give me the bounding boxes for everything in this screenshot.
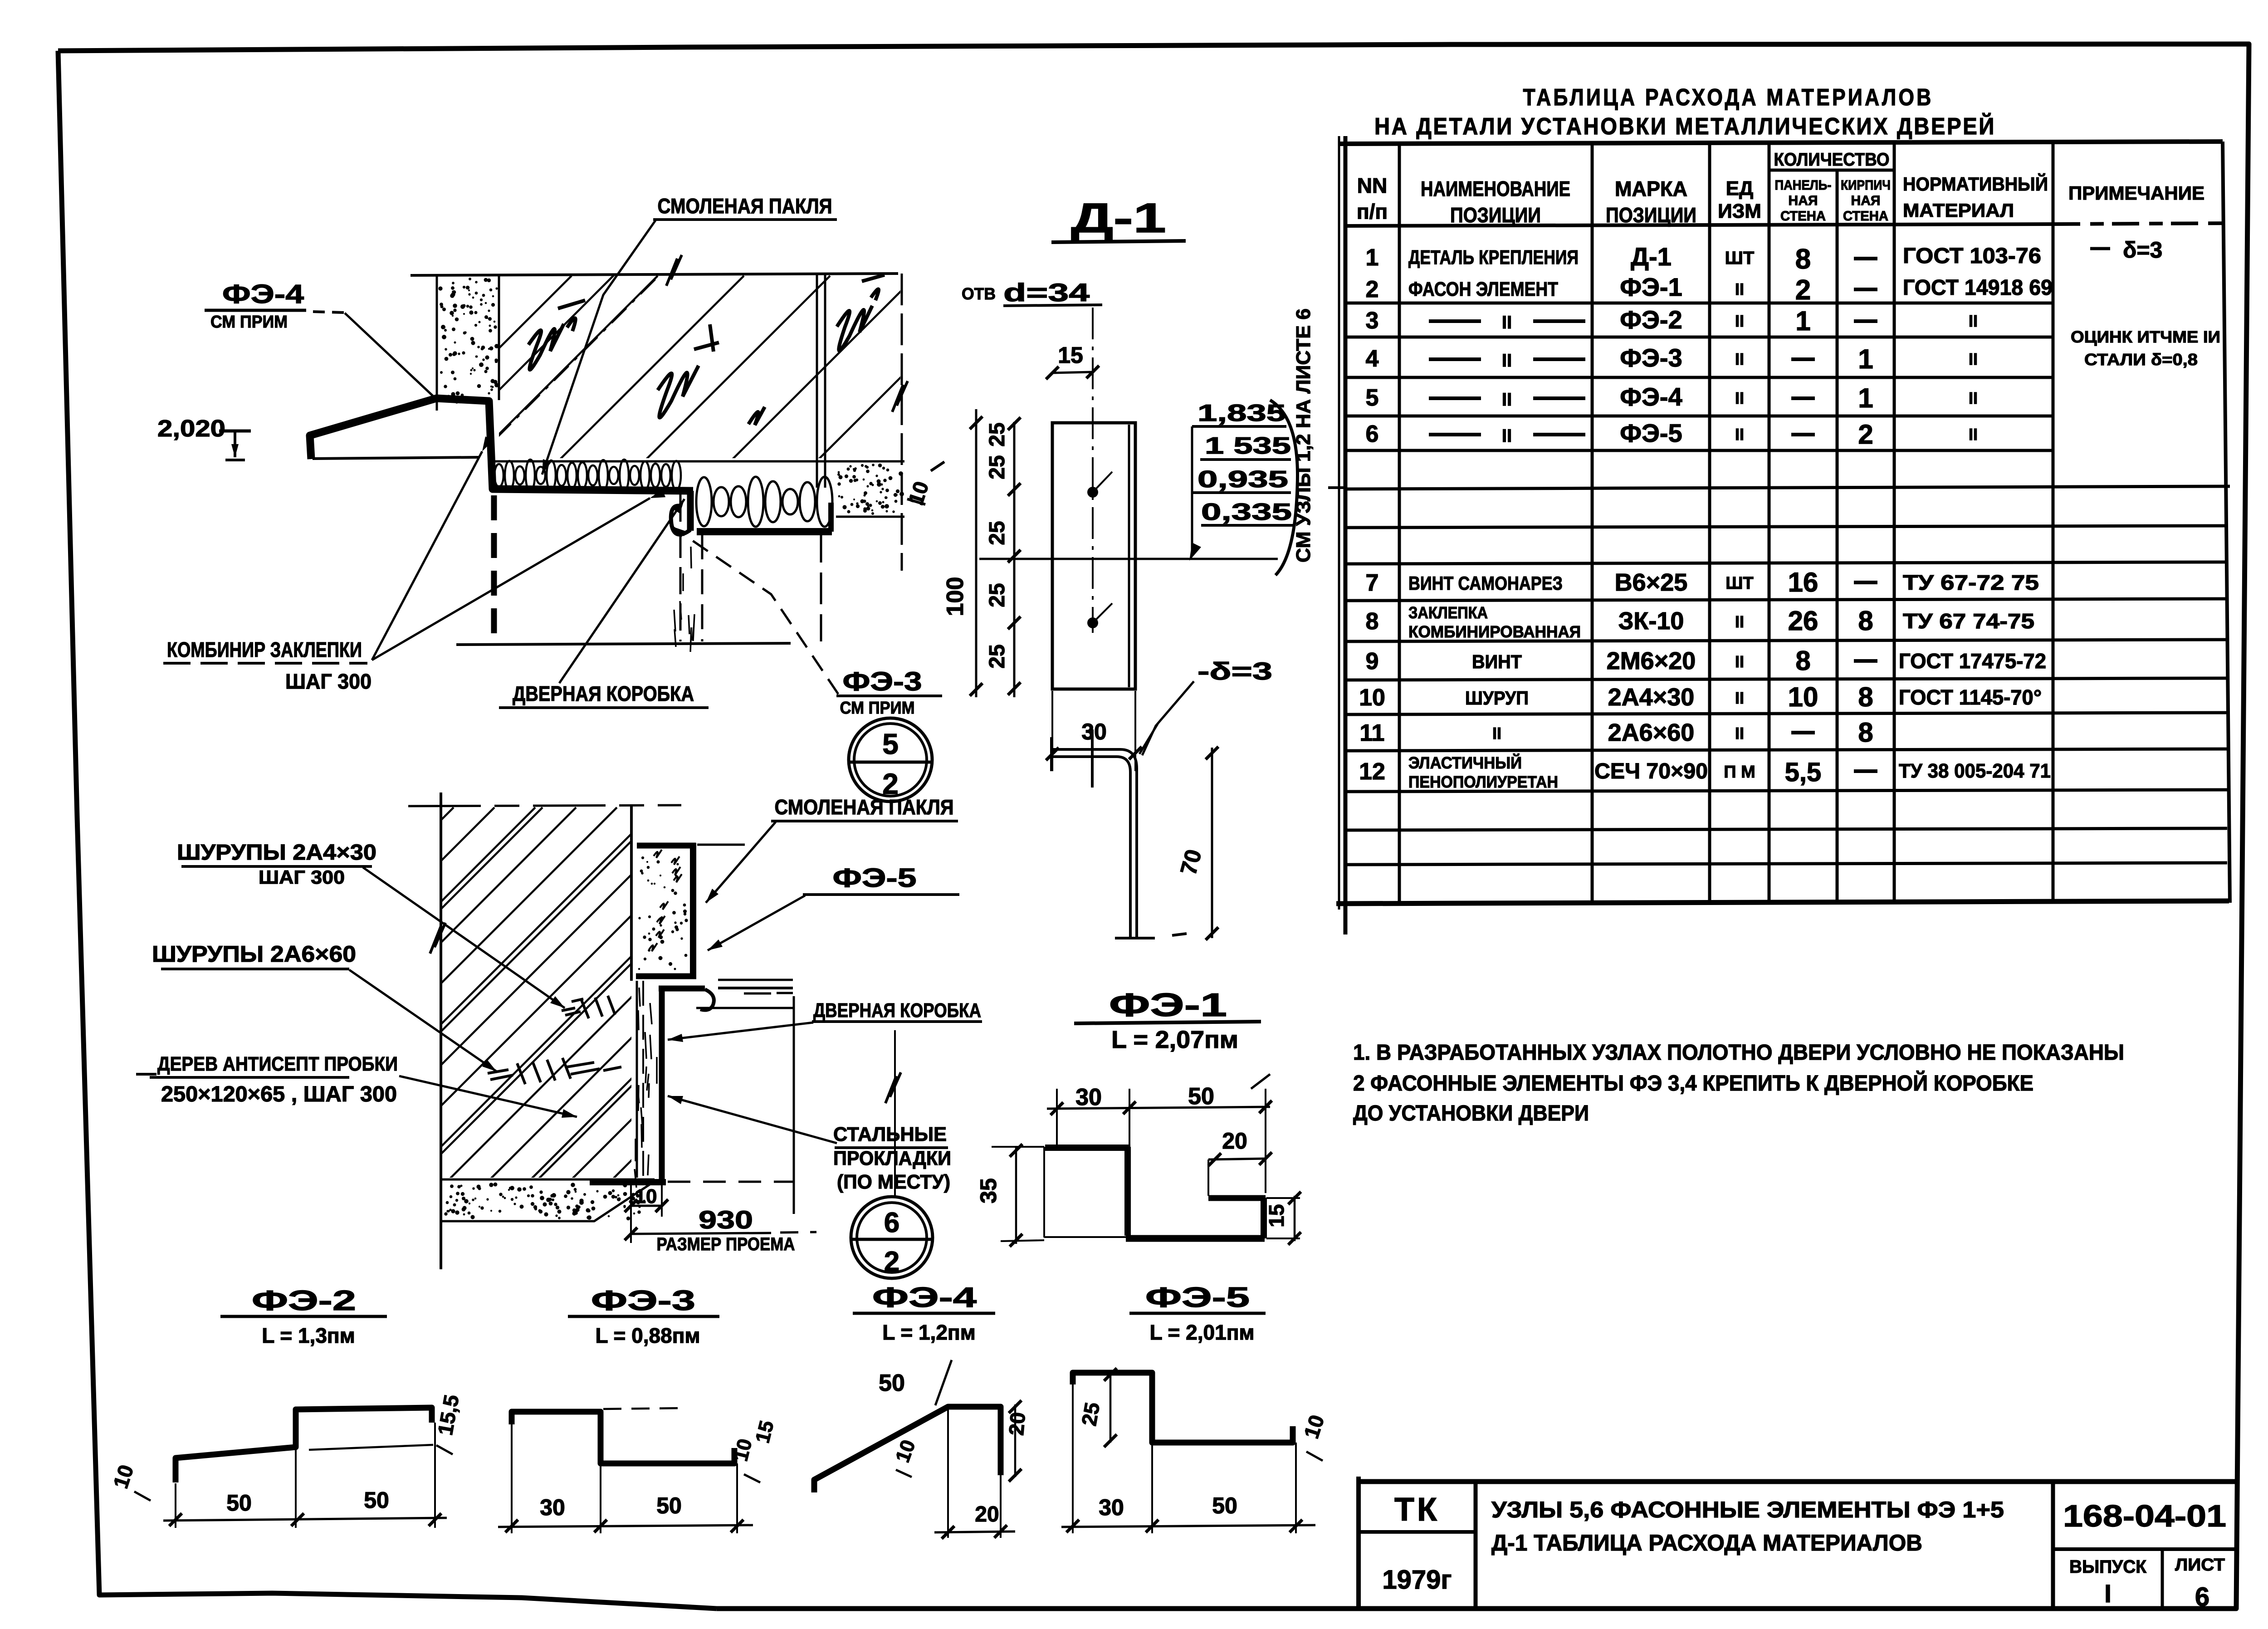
svg-text:ГОСТ 1145-70°: ГОСТ 1145-70° <box>1899 685 2042 709</box>
FE-2 profile <box>176 1408 433 1482</box>
label FE-3 with sm prim <box>836 667 942 718</box>
title block texts <box>1382 1492 2226 1612</box>
bottom flange thick <box>697 528 832 535</box>
svg-text:II: II <box>1735 652 1744 671</box>
svg-text:ДЕРЕВ АНТИСЕПТ ПРОБКИ: ДЕРЕВ АНТИСЕПТ ПРОБКИ <box>157 1053 398 1075</box>
svg-text:ДЕТАЛЬ КРЕПЛЕНИЯ: ДЕТАЛЬ КРЕПЛЕНИЯ <box>1408 246 1579 269</box>
svg-text:СТЕНА: СТЕНА <box>1843 209 1888 224</box>
svg-text:168-04-01: 168-04-01 <box>2063 1499 2226 1533</box>
svg-text:ГОСТ 14918 69: ГОСТ 14918 69 <box>1903 276 2053 300</box>
FE-5 block texture <box>649 850 682 951</box>
svg-text:ФЭ-4: ФЭ-4 <box>872 1282 977 1313</box>
svg-text:2 ФАСОННЫЕ ЭЛЕМЕНТЫ ФЭ 3,4 КРЕ: 2 ФАСОННЫЕ ЭЛЕМЕНТЫ ФЭ 3,4 КРЕПИТЬ К ДВЕ… <box>1353 1071 2033 1096</box>
svg-text:50: 50 <box>1212 1493 1237 1518</box>
svg-text:ПРОКЛАДКИ: ПРОКЛАДКИ <box>833 1147 951 1169</box>
svg-text:1: 1 <box>1858 383 1873 413</box>
svg-text:8: 8 <box>1858 606 1873 636</box>
uzel 5 wall inner double lines <box>817 274 825 488</box>
FE-4 leader <box>345 313 435 398</box>
svg-text:СТЕНА: СТЕНА <box>1780 209 1826 224</box>
svg-text:25: 25 <box>1077 1401 1104 1428</box>
svg-text:ОТВ: ОТВ <box>962 284 996 303</box>
label dvernaya korobka (uzel5) <box>499 682 709 708</box>
svg-text:ФЭ-1: ФЭ-1 <box>1109 987 1227 1023</box>
svg-text:2: 2 <box>884 1246 899 1277</box>
svg-text:Д-1: Д-1 <box>1631 242 1672 271</box>
svg-text:II: II <box>1502 313 1512 333</box>
svg-text:II: II <box>1735 312 1744 330</box>
svg-text:1: 1 <box>1366 245 1379 271</box>
dim 30 below plate <box>1046 691 1142 771</box>
uzel 5 top wall line <box>411 274 898 275</box>
svg-text:ЭЛАСТИЧНЫЙ: ЭЛАСТИЧНЫЙ <box>1408 753 1522 772</box>
tow row1 loops <box>494 460 681 491</box>
svg-text:10: 10 <box>635 1185 657 1208</box>
svg-text:10: 10 <box>1788 682 1818 712</box>
FE-5 title <box>1129 1282 1266 1344</box>
svg-text:ПОЗИЦИИ: ПОЗИЦИИ <box>1450 203 1541 227</box>
svg-text:0,935: 0,935 <box>1198 466 1288 493</box>
svg-text:26: 26 <box>1788 606 1818 636</box>
label derev antisept <box>136 1053 398 1106</box>
svg-text:ШТ: ШТ <box>1725 248 1755 268</box>
svg-text:-δ=3: -δ=3 <box>1198 658 1272 685</box>
svg-text:КОМБИНИР ЗАКЛЕПКИ: КОМБИНИР ЗАКЛЕПКИ <box>167 638 362 661</box>
svg-text:II: II <box>1502 390 1512 410</box>
svg-text:8: 8 <box>1858 682 1873 712</box>
svg-text:20: 20 <box>975 1502 999 1526</box>
dim 15 <box>1046 342 1099 379</box>
svg-text:ФАСОН ЭЛЕМЕНТ: ФАСОН ЭЛЕМЕНТ <box>1408 278 1558 300</box>
svg-text:ФЭ-5: ФЭ-5 <box>833 863 917 893</box>
korobka leader <box>559 499 684 683</box>
svg-text:ФЭ-5: ФЭ-5 <box>1145 1282 1250 1313</box>
svg-text:50: 50 <box>1188 1083 1214 1110</box>
svg-text:ПЕНОПОЛИУРЕТАН: ПЕНОПОЛИУРЕТАН <box>1408 773 1558 791</box>
svg-text:ТАБЛИЦА РАСХОДА МАТЕРИАЛОВ: ТАБЛИЦА РАСХОДА МАТЕРИАЛОВ <box>1523 84 1934 111</box>
FE-4 title <box>853 1282 995 1344</box>
svg-text:II: II <box>1969 425 1978 444</box>
svg-text:δ=3: δ=3 <box>2123 237 2162 263</box>
svg-text:(ПО МЕСТУ): (ПО МЕСТУ) <box>837 1171 950 1193</box>
FE-1 dims top <box>1047 1074 1272 1193</box>
svg-text:930: 930 <box>699 1205 753 1234</box>
svg-text:ГОСТ 17475-72: ГОСТ 17475-72 <box>1899 649 2046 673</box>
svg-text:20: 20 <box>1222 1128 1247 1154</box>
svg-text:2: 2 <box>1858 419 1873 450</box>
FE-1 dim 15 <box>1265 1192 1301 1245</box>
svg-text:4: 4 <box>1366 346 1379 372</box>
svg-text:ПРИМЕЧАНИЕ: ПРИМЕЧАНИЕ <box>2068 182 2204 204</box>
FE-1 title <box>1074 987 1261 1053</box>
FE-5 dims <box>1061 1368 1329 1533</box>
svg-text:NN: NN <box>1357 174 1387 197</box>
svg-text:5: 5 <box>882 728 899 760</box>
label shurupy 2A4 <box>177 841 376 888</box>
plate holes <box>1087 472 1112 628</box>
svg-text:II: II <box>1735 724 1744 743</box>
svg-text:ДО УСТАНОВКИ ДВЕРИ: ДО УСТАНОВКИ ДВЕРИ <box>1353 1101 1589 1125</box>
svg-text:ФЭ-2: ФЭ-2 <box>252 1285 356 1316</box>
svg-text:ШТ: ШТ <box>1725 574 1753 593</box>
svg-text:50: 50 <box>364 1487 389 1513</box>
big bracket <box>1270 400 1298 575</box>
svg-text:П М: П М <box>1724 763 1755 782</box>
svg-text:II: II <box>1735 350 1744 368</box>
svg-text:ЗК-10: ЗК-10 <box>1618 607 1684 635</box>
uzel 5 frame grain <box>674 547 694 652</box>
svg-text:ШУРУПЫ 2А6×60: ШУРУПЫ 2А6×60 <box>152 941 356 967</box>
svg-text:Д-1 ТАБЛИЦА РАСХОДА МАТЕРИАЛОВ: Д-1 ТАБЛИЦА РАСХОДА МАТЕРИАЛОВ <box>1491 1530 1922 1556</box>
svg-text:100: 100 <box>942 577 968 616</box>
uzel 6 door frame profile <box>590 986 794 1214</box>
svg-text:СМОЛЕНАЯ ПАКЛЯ: СМОЛЕНАЯ ПАКЛЯ <box>658 194 832 218</box>
plate centerline <box>979 558 1278 560</box>
svg-text:МАРКА: МАРКА <box>1615 177 1687 201</box>
svg-text:СТАЛИ δ=0,8: СТАЛИ δ=0,8 <box>2084 350 2198 369</box>
svg-text:2: 2 <box>1795 274 1811 306</box>
svg-text:II: II <box>1735 280 1744 298</box>
hole centerline vertical <box>1092 308 1094 633</box>
FE-1 thin closing lines <box>1044 1147 1126 1238</box>
svg-text:8: 8 <box>1795 244 1811 275</box>
svg-text:L = 2,01пм: L = 2,01пм <box>1149 1321 1254 1344</box>
svg-text:25: 25 <box>985 583 1009 607</box>
svg-text:РАЗМЕР ПРОЕМА: РАЗМЕР ПРОЕМА <box>657 1234 795 1254</box>
svg-text:II: II <box>1735 389 1744 407</box>
svg-text:ШУРУП: ШУРУП <box>1465 687 1529 709</box>
FE-3 profile vertical with hem <box>687 491 694 531</box>
FE-5 profile <box>1073 1373 1293 1443</box>
elevation marks <box>1189 400 1294 561</box>
svg-text:ДВЕРНАЯ КОРОБКА: ДВЕРНАЯ КОРОБКА <box>513 682 694 705</box>
uzel 6 floor stipple <box>441 1179 655 1221</box>
tow row2 loops <box>696 477 832 527</box>
svg-text:II: II <box>1502 351 1512 371</box>
uzel 5 break mark top <box>666 255 682 286</box>
svg-text:II: II <box>1735 612 1744 631</box>
svg-text:ТУ 67 74-75: ТУ 67 74-75 <box>1903 609 2034 633</box>
svg-text:ТУ 38 005-204 71: ТУ 38 005-204 71 <box>1899 760 2051 782</box>
dim line 25x4 <box>985 417 1021 697</box>
label dvernaya korobka (uzel6) <box>812 999 982 1022</box>
svg-text:2А6×60: 2А6×60 <box>1608 719 1695 746</box>
otv d=34 label <box>962 278 1102 307</box>
svg-text:ИЗМ: ИЗМ <box>1718 200 1761 222</box>
svg-text:ГОСТ 103-76: ГОСТ 103-76 <box>1903 244 2041 268</box>
svg-text:5,5: 5,5 <box>1785 758 1822 787</box>
svg-text:II: II <box>1969 389 1978 407</box>
svg-text:8: 8 <box>1795 646 1810 676</box>
svg-text:ФЭ-4: ФЭ-4 <box>222 279 304 309</box>
D-1 bent angle piece <box>1050 729 1187 938</box>
svg-text:d=34: d=34 <box>1003 278 1090 307</box>
svg-text:6: 6 <box>1366 421 1379 447</box>
label FE-4 <box>205 279 345 332</box>
svg-text:9: 9 <box>1366 648 1379 675</box>
dim 70 <box>1175 747 1218 940</box>
svg-text:ВИНТ САМОНАРЕЗ: ВИНТ САМОНАРЕЗ <box>1408 572 1563 594</box>
uzel 5 soffit line <box>456 643 791 645</box>
svg-text:НОРМАТИВНЫЙ: НОРМАТИВНЫЙ <box>1903 173 2048 195</box>
svg-text:25: 25 <box>985 455 1009 479</box>
svg-text:УЗЛЫ 5,6 ФАСОННЫЕ ЭЛЕМЕНТЫ ФЭ: УЗЛЫ 5,6 ФАСОННЫЕ ЭЛЕМЕНТЫ ФЭ 1+5 <box>1491 1497 2004 1522</box>
svg-text:ФЭ-3: ФЭ-3 <box>1620 343 1682 372</box>
svg-text:5: 5 <box>1366 385 1379 411</box>
uzel 6 left wall line <box>440 792 442 1269</box>
circle mark 5/2 <box>849 718 932 802</box>
svg-text:II: II <box>1735 425 1744 444</box>
table rows text <box>1359 237 2220 791</box>
svg-text:ТК: ТК <box>1394 1492 1440 1528</box>
svg-text:В6×25: В6×25 <box>1615 569 1688 596</box>
svg-text:L = 1,2пм: L = 1,2пм <box>882 1321 975 1344</box>
svg-text:50: 50 <box>226 1490 252 1516</box>
svg-text:L = 1,3пм: L = 1,3пм <box>262 1324 355 1347</box>
svg-text:ФЭ-2: ФЭ-2 <box>1620 305 1682 334</box>
table grid <box>1328 136 2230 934</box>
svg-text:7: 7 <box>1366 570 1379 596</box>
uzel 5 concrete panel stipple <box>437 274 499 411</box>
FE-4 flashing profile thick <box>310 398 693 491</box>
D-1 plate <box>1052 423 1135 689</box>
uzel 6 break mark <box>430 923 445 954</box>
uzel 5 dashed wall edge below <box>491 495 497 639</box>
svg-text:Д-1: Д-1 <box>1071 195 1166 241</box>
svg-text:L = 0,88пм: L = 0,88пм <box>595 1324 700 1347</box>
FE-1 profile <box>1045 1145 1129 1151</box>
svg-text:ШАГ 300: ШАГ 300 <box>285 670 371 693</box>
zaklepki leaders <box>372 451 482 660</box>
svg-text:12: 12 <box>1359 758 1385 785</box>
uzel 6 plug marks upper <box>562 996 615 1018</box>
uzel 5 hatch squiggles <box>528 275 885 425</box>
FE-4 profile <box>814 1407 1001 1492</box>
svg-text:1,835: 1,835 <box>1198 400 1286 426</box>
svg-text:МАТЕРИАЛ: МАТЕРИАЛ <box>1903 200 2014 221</box>
uzel 5 break mark right <box>892 381 908 412</box>
svg-text:ФЭ-5: ФЭ-5 <box>1620 419 1682 447</box>
FE-3 title <box>568 1285 719 1347</box>
uzel 6 floor dashed line right <box>668 1181 794 1183</box>
svg-text:ШАГ 300: ШАГ 300 <box>259 866 345 888</box>
svg-text:6: 6 <box>884 1207 899 1238</box>
svg-text:НАЯ: НАЯ <box>1851 193 1881 208</box>
D-1 title <box>1051 195 1186 242</box>
svg-text:СТАЛЬНЫЕ: СТАЛЬНЫЕ <box>833 1123 947 1145</box>
svg-text:L = 2,07пм: L = 2,07пм <box>1111 1026 1238 1053</box>
svg-text:I: I <box>2104 1579 2112 1608</box>
svg-text:25: 25 <box>985 521 1009 545</box>
table header texts <box>1357 150 2204 227</box>
uzel 6 top dashed line <box>408 805 681 806</box>
svg-text:30: 30 <box>1099 1495 1124 1520</box>
uzel 6 wall lines below <box>637 981 643 1178</box>
uzel5 dim 10 <box>904 462 944 508</box>
svg-text:ПАНЕЛЬ-: ПАНЕЛЬ- <box>1775 178 1832 193</box>
svg-text:11: 11 <box>1360 720 1385 746</box>
paklya leader <box>542 220 655 475</box>
FE-2 title <box>220 1285 387 1347</box>
svg-text:30: 30 <box>540 1495 565 1520</box>
svg-text:25: 25 <box>985 644 1009 668</box>
svg-text:2: 2 <box>1366 276 1379 303</box>
svg-text:50: 50 <box>656 1493 682 1518</box>
svg-text:30: 30 <box>1075 1084 1102 1110</box>
uzel 6 right extension line <box>885 1030 901 1196</box>
svg-text:8: 8 <box>1858 717 1873 748</box>
dim line 100 <box>942 409 982 697</box>
uzel 6 dim 930 <box>625 1205 816 1254</box>
label kombinir zaklepki <box>163 638 371 693</box>
svg-text:1: 1 <box>1795 306 1810 336</box>
svg-text:1: 1 <box>1858 344 1873 374</box>
svg-text:НАЯ: НАЯ <box>1789 193 1818 208</box>
svg-text:ФЭ-3: ФЭ-3 <box>591 1285 695 1316</box>
FE-3 leader dashed <box>671 526 838 694</box>
uzel 6 threshold lines <box>718 980 793 993</box>
svg-text:1. В РАЗРАБОТАННЫХ УЗЛАХ ПОЛОТ: 1. В РАЗРАБОТАННЫХ УЗЛАХ ПОЛОТНО ДВЕРИ У… <box>1353 1041 2124 1065</box>
svg-text:1979г: 1979г <box>1382 1565 1452 1595</box>
svg-text:25: 25 <box>985 422 1009 446</box>
svg-text:ТУ 67-72 75: ТУ 67-72 75 <box>1903 571 2039 594</box>
svg-text:НАИМЕНОВАНИЕ: НАИМЕНОВАНИЕ <box>1421 177 1570 201</box>
label shurupy 2A6 <box>152 941 356 969</box>
svg-text:10: 10 <box>1359 685 1385 711</box>
uzel 5 right concrete block stipple <box>836 464 904 517</box>
svg-text:ПОЗИЦИИ: ПОЗИЦИИ <box>1606 203 1696 227</box>
FE-4 dims <box>879 1360 1030 1539</box>
label FE-5 (uzel6) <box>803 863 959 895</box>
door leaf top line <box>313 457 479 459</box>
FE-3 profile <box>512 1408 734 1463</box>
svg-text:35: 35 <box>976 1178 1001 1203</box>
svg-text:II: II <box>1492 724 1501 743</box>
svg-text:1 535: 1 535 <box>1205 433 1291 459</box>
svg-text:ЛИСТ: ЛИСТ <box>2175 1556 2225 1575</box>
svg-text:п/п: п/п <box>1357 200 1388 223</box>
FE-3 hem curl <box>671 506 690 534</box>
svg-text:СМ УЗЛЫ 1,2 НА ЛИСТЕ 6: СМ УЗЛЫ 1,2 НА ЛИСТЕ 6 <box>1292 308 1315 563</box>
tow band1 top line <box>493 460 904 463</box>
uzel 6 plug marks lower <box>488 1058 621 1084</box>
FE-1 dim 20 <box>1208 1128 1272 1196</box>
svg-text:3: 3 <box>1366 308 1379 334</box>
svg-text:II: II <box>1969 312 1978 330</box>
uzel 5 level mark 2,020 <box>157 416 251 460</box>
svg-text:0,335: 0,335 <box>1201 499 1292 525</box>
label -d=3 <box>1142 658 1272 755</box>
title block frame <box>1359 1477 2236 1609</box>
svg-text:ЕД: ЕД <box>1726 177 1754 200</box>
svg-text:ФЭ-4: ФЭ-4 <box>1620 382 1682 411</box>
svg-text:ФЭ-3: ФЭ-3 <box>843 667 922 696</box>
svg-text:II: II <box>1969 350 1978 368</box>
svg-text:15: 15 <box>1265 1204 1288 1227</box>
svg-text:6: 6 <box>2195 1582 2209 1612</box>
svg-text:ФЭ-1: ФЭ-1 <box>1620 273 1682 301</box>
uzel 5 wall right edge <box>901 274 903 571</box>
label smolyanaya paklya (uzel6) <box>771 795 958 821</box>
svg-text:СМОЛЕНАЯ ПАКЛЯ: СМОЛЕНАЯ ПАКЛЯ <box>775 795 954 819</box>
svg-text:СЕЧ 70×90: СЕЧ 70×90 <box>1594 759 1708 783</box>
svg-text:2М6×20: 2М6×20 <box>1607 647 1696 675</box>
svg-text:ДВЕРНАЯ КОРОБКА: ДВЕРНАЯ КОРОБКА <box>813 999 981 1022</box>
svg-text:СМ ПРИМ: СМ ПРИМ <box>840 699 915 718</box>
FE-5 block in uzel6: profile thick <box>636 843 745 976</box>
svg-text:КОМБИНИРОВАННАЯ: КОМБИНИРОВАННАЯ <box>1408 622 1581 641</box>
svg-text:50: 50 <box>879 1370 905 1396</box>
svg-text:КИРПИЧ: КИРПИЧ <box>1841 178 1891 193</box>
svg-text:II: II <box>1735 689 1744 707</box>
FE-3 dims <box>498 1419 778 1533</box>
svg-text:15: 15 <box>1058 342 1083 368</box>
svg-text:НА ДЕТАЛИ УСТАНОВКИ МЕТАЛЛИЧЕС: НА ДЕТАЛИ УСТАНОВКИ МЕТАЛЛИЧЕСКИХ ДВЕРЕЙ <box>1374 113 1996 140</box>
circle mark 6/2 <box>851 1197 933 1278</box>
leader to angle corner <box>1139 724 1158 754</box>
uzel 6 frame grain <box>635 988 657 1188</box>
label stalnye prokladki <box>833 1123 951 1193</box>
svg-text:2А4×30: 2А4×30 <box>1608 684 1695 711</box>
svg-text:30: 30 <box>1081 719 1107 744</box>
svg-text:250×120×65 , ШАГ 300: 250×120×65 , ШАГ 300 <box>161 1082 397 1106</box>
uzel 6 wall right edge upper <box>630 806 633 981</box>
svg-text:КОЛИЧЕСТВО: КОЛИЧЕСТВО <box>1774 150 1890 170</box>
label smolyanaya paklya (uzel5) <box>653 194 837 220</box>
uzel 5 door frame verticals <box>680 494 821 641</box>
FE-1 dim 35 <box>976 1144 1044 1247</box>
svg-text:ВЫПУСК: ВЫПУСК <box>2069 1557 2147 1577</box>
svg-text:2,020: 2,020 <box>157 416 225 442</box>
svg-text:16: 16 <box>1788 567 1818 597</box>
svg-text:ЗАКЛЕПКА: ЗАКЛЕПКА <box>1408 603 1488 622</box>
svg-text:ШУРУПЫ 2А4×30: ШУРУПЫ 2А4×30 <box>177 841 376 865</box>
svg-text:ОЦИНК ИТЧМЕ ІИ: ОЦИНК ИТЧМЕ ІИ <box>2071 328 2220 346</box>
svg-text:ВИНТ: ВИНТ <box>1472 651 1522 672</box>
FE-2 dims <box>108 1393 463 1528</box>
svg-text:8: 8 <box>1366 608 1379 635</box>
svg-text:II: II <box>1502 426 1512 446</box>
svg-text:20: 20 <box>1004 1411 1030 1437</box>
svg-text:СМ ПРИМ: СМ ПРИМ <box>210 313 288 332</box>
uzel 6 dim 10 <box>625 1185 668 1243</box>
